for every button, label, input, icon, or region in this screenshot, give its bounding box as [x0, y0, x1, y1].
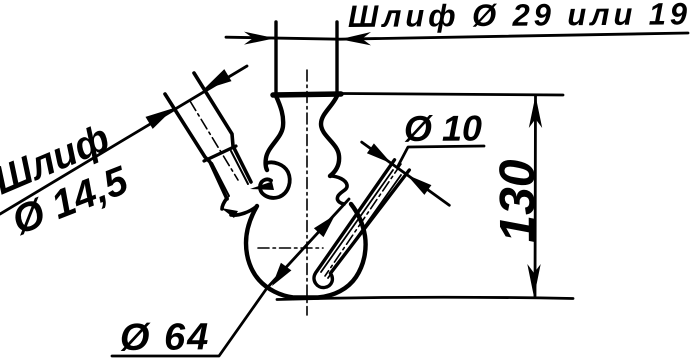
svg-text:Ø 64: Ø 64	[120, 316, 211, 359]
svg-text:130: 130	[489, 159, 546, 243]
svg-text:Ø 10: Ø 10	[404, 107, 482, 149]
svg-text:Шлиф Ø 29 или 19: Шлиф Ø 29 или 19	[348, 0, 691, 34]
